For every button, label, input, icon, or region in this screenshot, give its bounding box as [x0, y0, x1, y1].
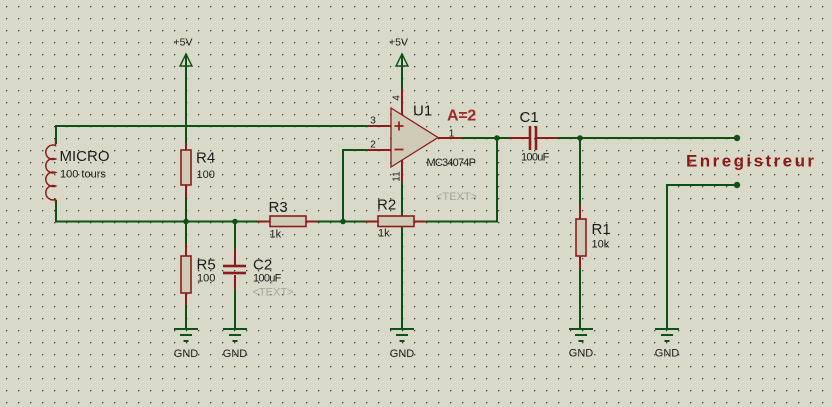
svg-text:MICRO: MICRO [60, 148, 110, 165]
junction inverting input tap [340, 219, 346, 225]
svg-text:GND: GND [655, 348, 680, 360]
ground symbol under C2 [223, 329, 248, 360]
wire pin 11 to GND [401, 183, 403, 329]
ground symbol under R1 [569, 329, 594, 360]
svg-text:C2: C2 [253, 257, 272, 274]
svg-text:R3: R3 [269, 199, 288, 216]
svg-text:GND: GND [223, 348, 248, 360]
svg-text:MC34074P: MC34074P [427, 157, 476, 169]
resistor R3 [258, 216, 318, 227]
svg-text:+5V: +5V [389, 37, 408, 49]
svg-text:U1: U1 [413, 103, 432, 120]
svg-text:11: 11 [392, 171, 403, 182]
resistor R5 [181, 244, 191, 305]
resistor R2 [366, 216, 426, 227]
svg-text:100: 100 [197, 273, 215, 285]
wire +5V rail 1 down through bus to R4 [185, 54, 187, 143]
wire output net to C1 [462, 137, 529, 139]
svg-text:100: 100 [197, 169, 215, 181]
wire output junction down to R1 [579, 138, 581, 205]
resistor R1 [576, 205, 586, 269]
svg-text:4: 4 [392, 95, 403, 101]
svg-text:100uF: 100uF [253, 273, 282, 285]
resistor R4 [181, 143, 191, 198]
svg-text:10k: 10k [592, 239, 610, 251]
svg-text:GND: GND [390, 348, 415, 360]
capacitor C1 [509, 126, 558, 150]
wire +5V rail 2 to pin 4 [401, 54, 403, 89]
wire R2 right to feedback corner up to output [426, 138, 497, 222]
junction output/R1 [577, 135, 583, 141]
node recorder ground terminal [734, 182, 740, 188]
svg-text:R5: R5 [197, 257, 216, 274]
ground symbol under op-amp pin 11 [390, 329, 415, 360]
wire C2 bottom to GND [234, 290, 236, 329]
svg-text:<TEXT>: <TEXT> [436, 191, 477, 203]
wire junction to R5 top [185, 222, 187, 245]
svg-text:A=2: A=2 [447, 108, 476, 125]
svg-text:100 tours: 100 tours [60, 169, 106, 181]
svg-text:2: 2 [370, 140, 376, 151]
svg-text:<TEXT>: <TEXT> [253, 287, 294, 299]
svg-text:R1: R1 [592, 221, 611, 238]
power +5V symbol 1 [174, 37, 193, 67]
power +5V symbol 2 [389, 37, 408, 67]
wire recorder ground stub [667, 185, 737, 329]
capacitor C2 [223, 249, 246, 290]
svg-text:Enregistreur: Enregistreur [686, 152, 817, 171]
svg-text:+5V: +5V [174, 37, 193, 49]
svg-text:1: 1 [449, 129, 455, 140]
op-amp U1 [367, 89, 462, 183]
svg-text:GND: GND [569, 348, 594, 360]
wire R3 to R2 segment [318, 221, 366, 223]
svg-text:GND: GND [174, 348, 199, 360]
svg-text:R2: R2 [377, 197, 396, 214]
junction C2 on bus [232, 219, 238, 225]
junction R4/R5/MICRO bus [183, 219, 189, 225]
svg-text:C1: C1 [520, 109, 539, 126]
svg-text:1k: 1k [270, 229, 282, 241]
svg-text:R4: R4 [196, 150, 215, 167]
ground symbol recorder [655, 329, 680, 360]
svg-text:1k: 1k [378, 228, 390, 240]
inductor MICRO (microphone coil) [46, 140, 56, 203]
junction output/feedback [494, 135, 500, 141]
wire junction to C2 top [234, 222, 236, 250]
ground symbol under R5 [174, 329, 199, 360]
wire MICRO top to op-amp pin 3 [55, 125, 367, 144]
wire junction up to inverting input pin 2 [343, 150, 367, 223]
svg-text:3: 3 [370, 116, 376, 127]
wire R5 bottom to GND [185, 305, 187, 329]
node output terminal [734, 135, 740, 141]
wire C1 to recorder [537, 137, 737, 139]
wire R4 bottom to mid bus [185, 198, 187, 223]
wire MICRO bottom along mid bus to R3 [55, 200, 258, 222]
svg-text:100uF: 100uF [521, 152, 550, 164]
wire R1 bottom to GND [579, 269, 581, 329]
